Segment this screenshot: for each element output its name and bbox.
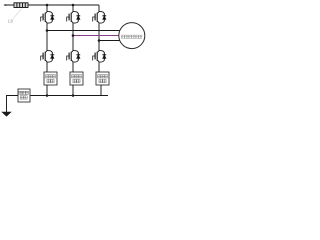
node phase C tap — [98, 39, 101, 42]
leg3 wires — [98, 5, 100, 11]
label Lb with leader — [13, 9, 22, 20]
motor M — [119, 23, 145, 49]
node phase A tap — [46, 29, 49, 32]
igbt V4 lower leg1 — [41, 50, 55, 63]
motor label text — [121, 35, 124, 38]
inductor Lb — [14, 3, 28, 8]
box text — [72, 75, 75, 78]
input wire with left arrow — [4, 4, 14, 6]
node top leg1 — [46, 4, 49, 7]
control box 4 — [18, 89, 30, 102]
igbt V1 upper leg1 — [41, 11, 55, 24]
driver box 2 — [70, 72, 83, 85]
svg-text:Lb: Lb — [8, 19, 14, 24]
leg1 wires — [46, 5, 48, 11]
igbt V3 upper leg2 — [67, 11, 81, 24]
igbt V6 lower leg2 — [67, 50, 81, 63]
box text — [98, 75, 101, 78]
node phase B tap — [72, 34, 75, 37]
igbt V2 lower leg3 — [93, 50, 107, 63]
node bus leg1 — [46, 94, 49, 97]
igbt V5 upper leg3 — [93, 11, 107, 24]
stub below box2 — [72, 85, 74, 96]
ground wire — [7, 96, 19, 113]
top bus — [28, 4, 99, 6]
stub below box3 — [100, 85, 102, 96]
box4 text — [19, 91, 22, 94]
leg2 wires — [72, 5, 74, 11]
driver box 3 — [96, 72, 109, 85]
phase C line — [99, 40, 120, 42]
stub below box1 — [46, 85, 48, 96]
phase A line — [47, 30, 120, 32]
node top leg2 — [72, 4, 75, 7]
node bus leg2 — [72, 94, 75, 97]
ground — [1, 112, 11, 117]
box text — [46, 75, 49, 78]
driver box 1 — [44, 72, 57, 85]
phase B line (purple) — [73, 35, 119, 37]
bottom bus — [30, 95, 108, 97]
